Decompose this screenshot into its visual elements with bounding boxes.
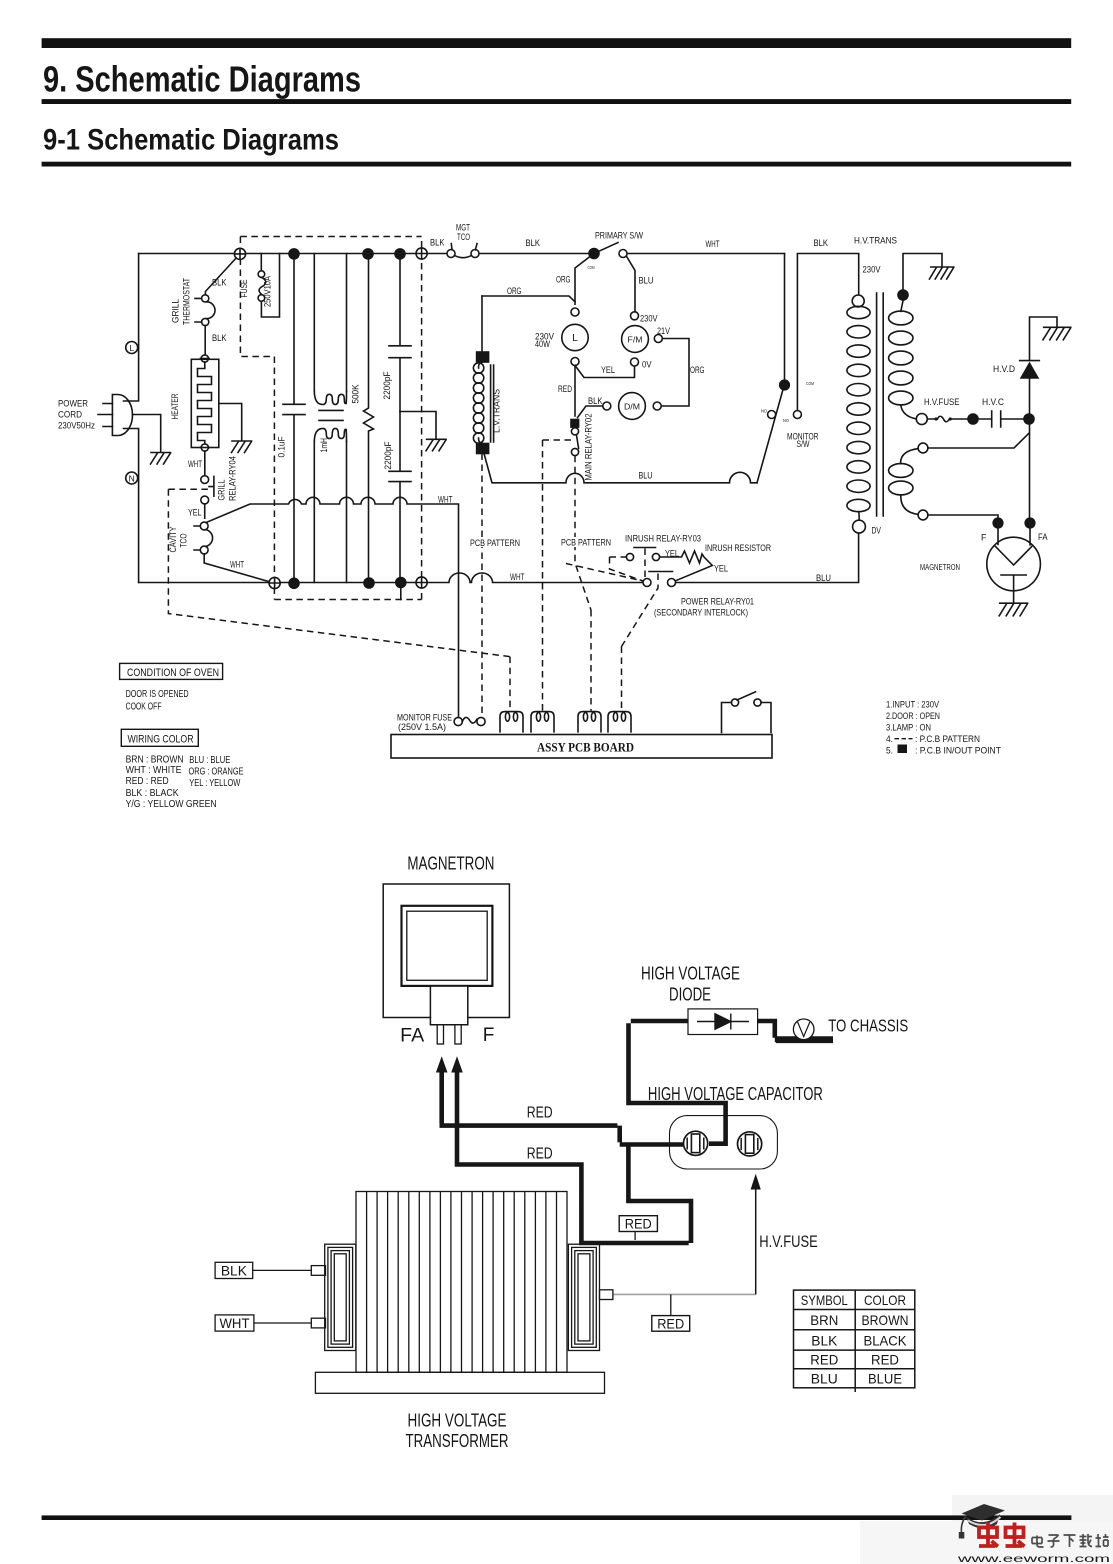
svg-text:YEL: YEL	[665, 549, 679, 559]
assy pcb board	[391, 735, 772, 759]
svg-text:RED: RED	[558, 384, 572, 394]
svg-text:POWER RELAY-RY01: POWER RELAY-RY01	[681, 597, 754, 607]
svg-text:BLU: BLU	[639, 471, 653, 481]
hv capacitor H.V.C	[979, 411, 1023, 427]
svg-text:H.V.C: H.V.C	[982, 397, 1005, 407]
hv transformer right bracket	[568, 1244, 599, 1350]
svg-text:5.: 5.	[886, 746, 893, 756]
power relay RY01 contacts	[643, 579, 651, 587]
svg-text:L: L	[129, 343, 134, 353]
capacitor 0.1uF	[283, 254, 305, 583]
svg-text:TRANSFORMER: TRANSFORMER	[406, 1431, 509, 1451]
svg-text:(SECONDARY INTERLOCK): (SECONDARY INTERLOCK)	[654, 608, 748, 618]
svg-text:BLK: BLK	[221, 1263, 247, 1278]
watermark red glyph	[979, 1523, 998, 1547]
hv diode H.V.D	[1029, 379, 1031, 413]
inrush relay RY03	[626, 553, 633, 560]
pcb in/out point	[967, 413, 979, 425]
label pcb pattern 1	[469, 537, 521, 547]
wire junction to grill thermostat	[205, 256, 238, 295]
svg-text:NO: NO	[761, 409, 768, 414]
wire ORG lv-trans to lamp	[482, 296, 575, 302]
svg-text:F: F	[981, 533, 987, 543]
wire diode to chassis	[758, 1019, 782, 1040]
svg-text:BRN : BROWN: BRN : BROWN	[126, 755, 184, 766]
svg-text:YEL : YELLOW: YEL : YELLOW	[189, 778, 240, 789]
svg-text:RELAY-RY04: RELAY-RY04	[228, 456, 238, 501]
pcb in/out point	[362, 248, 374, 260]
svg-text:2200pF: 2200pF	[382, 371, 392, 400]
svg-text:2.DOOR : OPEN: 2.DOOR : OPEN	[886, 711, 940, 721]
watermark gray glyph	[1032, 1536, 1044, 1548]
svg-text:BLK: BLK	[526, 238, 541, 248]
svg-text:BLUE: BLUE	[868, 1370, 902, 1386]
pcb dashed ry02 to connector	[575, 456, 591, 711]
drive motor D/M	[653, 402, 661, 410]
magnetron pins	[437, 1025, 443, 1044]
svg-text:BLK: BLK	[212, 333, 227, 343]
wire lower bus left	[139, 573, 643, 583]
svg-text:THERMOSTAT: THERMOSTAT	[182, 278, 192, 325]
svg-text:BROWN: BROWN	[862, 1312, 909, 1328]
svg-text:S/W: S/W	[797, 439, 811, 449]
svg-text:DOOR IS OPENED: DOOR IS OPENED	[126, 689, 189, 700]
svg-text:RED: RED	[657, 1316, 684, 1331]
hv transformer base	[315, 1372, 604, 1393]
chassis bar	[776, 1036, 833, 1043]
svg-text:: P.C.B PATTERN: : P.C.B PATTERN	[915, 734, 980, 744]
condition of oven box	[120, 663, 223, 679]
svg-text:BLK: BLK	[430, 238, 445, 248]
svg-text:MAIN RELAY-RY02: MAIN RELAY-RY02	[584, 413, 594, 480]
watermark gray glyph	[1096, 1534, 1109, 1547]
heater terminal top	[201, 355, 208, 362]
magnetron	[987, 537, 1041, 591]
wire ORG 21V loop	[661, 339, 689, 407]
svg-text:L.V.TRANS: L.V.TRANS	[491, 389, 501, 433]
watermark background	[952, 1495, 1113, 1564]
watermark gray glyph	[1080, 1534, 1093, 1547]
BLK label box	[215, 1262, 253, 1278]
power plug	[112, 395, 132, 436]
pcb dashed box main	[240, 237, 421, 600]
pcb in/out point	[992, 517, 1003, 528]
wire BLK down	[797, 254, 858, 411]
svg-text:MONITOR FUSE: MONITOR FUSE	[397, 713, 452, 723]
watermark red glyph	[1006, 1523, 1025, 1547]
svg-text:4.: 4.	[886, 734, 893, 744]
wire WHT down	[784, 254, 786, 381]
svg-text:BLK: BLK	[212, 278, 227, 288]
inrush resistor	[660, 551, 713, 581]
svg-text:MAGNETRON: MAGNETRON	[920, 563, 960, 572]
wire N rail down	[124, 429, 139, 583]
svg-text:www.eeworm.com: www.eeworm.com	[956, 1553, 1110, 1564]
magnetron pictorial mid box	[402, 906, 493, 986]
ground hv trans	[929, 267, 953, 279]
wire left rail L	[124, 254, 139, 402]
wire primary sw to lamp	[575, 256, 591, 305]
svg-text:0.1uF: 0.1uF	[277, 436, 287, 458]
svg-text:TCO: TCO	[457, 232, 470, 242]
svg-text:Y/G : YELLOW GREEN: Y/G : YELLOW GREEN	[126, 799, 217, 810]
hv transformer left bracket	[325, 1244, 356, 1350]
svg-text:1mH: 1mH	[319, 438, 329, 453]
svg-text:RED: RED	[871, 1351, 899, 1367]
svg-text:YEL: YEL	[601, 365, 615, 375]
pcb dashed power relay	[622, 574, 659, 711]
thermal cutout MGT TCO	[447, 250, 455, 258]
svg-text:FUSE: FUSE	[239, 279, 249, 297]
svg-text:YEL: YEL	[188, 508, 202, 518]
svg-text:SYMBOL: SYMBOL	[801, 1292, 848, 1308]
wire top bus right	[627, 253, 785, 255]
monitor switch contacts	[768, 411, 776, 419]
svg-text:0V: 0V	[642, 360, 652, 370]
svg-text:MAGNETRON: MAGNETRON	[407, 853, 494, 874]
svg-text:WHT: WHT	[706, 239, 720, 249]
wire top bus middle	[479, 253, 588, 255]
pcb dashed inrush relay	[566, 549, 645, 582]
header bar 2	[42, 99, 1072, 104]
svg-text:WHT: WHT	[230, 560, 244, 570]
wire lamp YEL to FM	[575, 366, 635, 378]
primary switch blade	[594, 243, 618, 254]
svg-text:BLU: BLU	[816, 573, 831, 583]
svg-text:1.INPUT : 230V: 1.INPUT : 230V	[886, 700, 940, 710]
capacitor 2200pF lower	[389, 412, 411, 583]
svg-text:3.LAMP : ON: 3.LAMP : ON	[886, 723, 931, 733]
grill relay RY04	[201, 476, 209, 484]
wire BLU lvtrans to monitor sw	[484, 454, 757, 483]
node L circle	[126, 342, 138, 354]
svg-text:COOK OFF: COOK OFF	[126, 702, 162, 713]
pcb in/out point	[363, 577, 375, 589]
ground mid	[426, 439, 446, 451]
svg-text:250V10A: 250V10A	[263, 276, 273, 307]
pcb in/out point	[779, 379, 790, 390]
svg-text:NO: NO	[783, 418, 790, 423]
lamp L	[571, 308, 579, 316]
svg-text:RED : RED: RED : RED	[126, 776, 169, 787]
svg-text:H.V.D: H.V.D	[993, 364, 1015, 374]
hv transformer hatched body	[356, 1192, 567, 1373]
svg-text:HIGH VOLTAGE: HIGH VOLTAGE	[641, 964, 740, 984]
pcb in/out point	[288, 578, 300, 590]
svg-text:FA: FA	[400, 1026, 424, 1047]
svg-text:TCO: TCO	[179, 533, 189, 547]
pcb dashed line lv-trans	[481, 454, 483, 717]
pcb in/out point	[288, 248, 300, 260]
arrow to F pin	[436, 1056, 448, 1072]
svg-text:POWER: POWER	[58, 399, 88, 409]
hv fuse	[927, 416, 967, 422]
pcb dashed ry04	[168, 489, 510, 711]
magnetron pictorial outer box	[383, 884, 509, 1018]
to chassis circle	[793, 1019, 814, 1040]
blk lead pin	[311, 1266, 325, 1276]
svg-text:INRUSH RELAY-RY03: INRUSH RELAY-RY03	[625, 534, 701, 544]
svg-text:9-1 Schematic Diagrams: 9-1 Schematic Diagrams	[43, 124, 339, 157]
header bar thick top	[42, 38, 1072, 48]
svg-text:INRUSH RESISTOR: INRUSH RESISTOR	[705, 543, 771, 553]
svg-text:40W: 40W	[535, 339, 551, 349]
svg-text:ASSY PCB BOARD: ASSY PCB BOARD	[537, 740, 634, 755]
ground heater	[232, 441, 252, 453]
svg-text:N: N	[129, 473, 135, 483]
svg-text:(250V 1.5A): (250V 1.5A)	[398, 722, 446, 732]
pcb connector	[578, 712, 601, 732]
svg-text:WHT: WHT	[438, 495, 453, 505]
svg-text:COM: COM	[588, 265, 595, 270]
label pcb pattern 2	[560, 537, 612, 547]
svg-text:ORG: ORG	[690, 365, 705, 375]
svg-text:BRN: BRN	[810, 1312, 838, 1328]
pcb in/out point	[1023, 413, 1035, 425]
svg-text:BLK: BLK	[588, 396, 603, 406]
wire BLU primary to FM	[627, 256, 636, 312]
svg-text:F: F	[483, 1025, 495, 1046]
svg-text:CORD: CORD	[58, 410, 82, 420]
svg-text:MGT: MGT	[456, 223, 470, 233]
svg-text:CONDITION OF OVEN: CONDITION OF OVEN	[127, 667, 219, 679]
wht lead pin	[311, 1318, 325, 1328]
stub node to dashed	[400, 588, 402, 600]
hv fuse arrow	[755, 1189, 757, 1295]
svg-text:230V50Hz: 230V50Hz	[58, 421, 95, 431]
svg-text:COM: COM	[806, 381, 814, 386]
watermark gray glyph	[1048, 1535, 1060, 1547]
wire heater tap to ground	[219, 404, 242, 441]
svg-text:BLK: BLK	[814, 238, 829, 248]
svg-text:GRILL: GRILL	[171, 299, 181, 323]
right lead pin	[600, 1290, 613, 1300]
cavity tco	[200, 522, 208, 530]
watermark gray glyph	[1064, 1535, 1076, 1547]
svg-text:500K: 500K	[351, 384, 361, 403]
svg-text:PRIMARY S/W: PRIMARY S/W	[595, 231, 644, 241]
wire tco bottom to bus	[204, 554, 270, 582]
wire BLK dm to RY02	[578, 406, 603, 418]
heater terminal bottom	[201, 444, 208, 451]
svg-text:BLK: BLK	[811, 1333, 838, 1349]
svg-text:H.V.TRANS: H.V.TRANS	[854, 236, 897, 246]
wire ground top of trans	[903, 254, 942, 290]
svg-text:230V: 230V	[640, 314, 658, 324]
svg-text:WHT: WHT	[510, 572, 525, 582]
svg-text:YEL: YEL	[714, 564, 728, 574]
arrow to FA pin	[451, 1056, 463, 1072]
wire earth pin to ground	[133, 415, 161, 453]
svg-text:RED: RED	[625, 1217, 652, 1232]
monitor switch blade	[757, 391, 783, 483]
svg-text:F/M: F/M	[628, 334, 643, 344]
svg-text:D/M: D/M	[624, 401, 640, 411]
svg-text:ORG: ORG	[556, 275, 571, 285]
svg-text:ORG : ORANGE: ORG : ORANGE	[189, 767, 244, 778]
RED box lower	[652, 1316, 690, 1332]
pcb connector	[608, 712, 631, 732]
wire lower bus right of relay	[676, 533, 859, 583]
high voltage transformer H.V.TRANS	[852, 295, 864, 307]
pcb crossing node	[416, 577, 427, 588]
pcb connector	[531, 712, 554, 732]
wire lamp to RY02 RED	[574, 366, 576, 417]
wire thick diode link	[626, 1021, 728, 1144]
fuse 250V10A	[260, 254, 262, 271]
svg-text:DIODE: DIODE	[669, 985, 711, 1005]
high voltage diode box	[688, 1009, 814, 1040]
svg-text:CAVITY: CAVITY	[168, 526, 178, 552]
door sensing switch	[731, 699, 738, 706]
WHT label box	[215, 1315, 254, 1331]
pcb crossing node	[234, 248, 245, 259]
header bar 3	[42, 162, 1072, 167]
svg-text:FA: FA	[1038, 532, 1048, 542]
ground magnetron	[999, 603, 1027, 616]
high voltage capacitor body	[670, 1116, 778, 1169]
capacitor 2200pF upper	[389, 254, 411, 412]
svg-text:TO CHASSIS: TO CHASSIS	[828, 1016, 908, 1036]
node dot trans secondary top	[897, 289, 909, 301]
magnetron stem	[431, 987, 467, 1024]
heater body	[191, 359, 219, 447]
watermark graduation cap	[959, 1504, 1005, 1539]
pcb in/out point	[1024, 517, 1035, 528]
wire to ground mid	[400, 412, 436, 439]
svg-text:WIRING COLOR: WIRING COLOR	[128, 734, 194, 746]
svg-text:RED: RED	[527, 1105, 553, 1122]
monitor fuse	[454, 717, 462, 725]
pcb crossing node	[269, 577, 280, 588]
svg-text:H.V.FUSE: H.V.FUSE	[924, 397, 960, 407]
svg-text:L: L	[572, 333, 578, 344]
svg-text:WHT: WHT	[220, 1316, 250, 1331]
svg-text:DV: DV	[872, 526, 882, 536]
pcb connector	[500, 712, 523, 732]
svg-text:BLU: BLU	[811, 1370, 838, 1386]
svg-text:WHT: WHT	[188, 459, 202, 469]
footer bar	[42, 1515, 1072, 1520]
main relay RY02	[571, 420, 579, 428]
wire filament top to FA	[928, 425, 1030, 517]
svg-text:230V: 230V	[863, 265, 881, 275]
svg-text:GRILL: GRILL	[217, 479, 227, 500]
wire gray transformer to fuse point	[613, 1293, 756, 1295]
pcb in/out point	[588, 248, 600, 260]
svg-text:HEATER: HEATER	[170, 394, 180, 420]
svg-text:WHT : WHITE: WHT : WHITE	[126, 765, 182, 776]
svg-text:9. Schematic Diagrams: 9. Schematic Diagrams	[43, 59, 361, 100]
low voltage transformer L.V.TRANS	[481, 296, 483, 352]
svg-text:BLK : BLACK: BLK : BLACK	[126, 788, 179, 799]
svg-text:ORG: ORG	[507, 286, 522, 296]
RED box upper	[619, 1216, 657, 1232]
wire top bus L	[139, 253, 447, 255]
svg-text:PCB PATTERN: PCB PATTERN	[561, 538, 611, 548]
svg-text:BLU: BLU	[639, 276, 654, 286]
wire RED F to capacitor	[440, 1071, 684, 1145]
node N circle	[126, 472, 138, 484]
wiring color box	[121, 729, 198, 746]
wire heater to grill relay	[204, 451, 206, 476]
wire relay to cavity tco	[204, 504, 206, 518]
svg-text:H.V.FUSE: H.V.FUSE	[759, 1232, 818, 1251]
svg-text:HIGH VOLTAGE: HIGH VOLTAGE	[408, 1411, 507, 1431]
svg-text:2200pF: 2200pF	[383, 441, 393, 470]
wire filament bottom to F	[928, 515, 998, 517]
wire thermostat to heater	[204, 326, 206, 355]
pcb crossing node	[416, 248, 427, 259]
symbol color table	[794, 1290, 915, 1392]
ground hv diode	[1043, 327, 1071, 340]
resistor 500K	[364, 254, 374, 583]
svg-text:BLU : BLUE: BLU : BLUE	[189, 755, 230, 766]
wire YEL tco to monitor fuse	[206, 497, 458, 717]
magnetron pictorial inner box	[407, 911, 487, 980]
wire RED FA to transformer loop	[455, 1071, 694, 1244]
grill thermostat	[202, 295, 209, 302]
svg-text:PCB PATTERN: PCB PATTERN	[470, 538, 520, 548]
svg-text:RED: RED	[527, 1146, 553, 1163]
pcb in/out point	[395, 577, 407, 589]
svg-text:21V: 21V	[657, 326, 670, 336]
ground plug earth	[151, 453, 171, 465]
fan motor F/M	[631, 312, 639, 320]
choke 1mH	[314, 254, 346, 392]
svg-text:RED: RED	[810, 1351, 838, 1367]
pcb in/out point	[394, 248, 406, 260]
svg-text:BLACK: BLACK	[864, 1333, 908, 1349]
svg-text:: P.C.B IN/OUT POINT: : P.C.B IN/OUT POINT	[915, 746, 1001, 756]
svg-text:HIGH VOLTAGE CAPACITOR: HIGH VOLTAGE CAPACITOR	[648, 1083, 823, 1104]
svg-text:COLOR: COLOR	[864, 1292, 906, 1308]
pcb dashed line ry02 box	[543, 440, 572, 711]
